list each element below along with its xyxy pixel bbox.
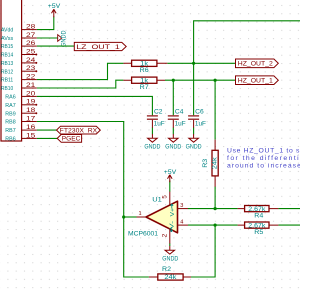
wire top right corner <box>194 21 300 64</box>
capacitor C6 <box>188 110 206 128</box>
wire R7 to HZ_OUT_1 <box>165 79 236 81</box>
svg-text:RB8: RB8 <box>5 120 15 126</box>
op-amp U1 <box>128 192 188 244</box>
wire +5V to pin 28 <box>37 16 54 29</box>
svg-text:2.67k: 2.67k <box>248 207 266 213</box>
wire RB11 to R6 <box>37 63 124 79</box>
pin 21 RB10 <box>1 83 37 92</box>
resistor R5 <box>238 222 279 236</box>
opamp pin 3 <box>178 208 189 210</box>
svg-text:1k: 1k <box>140 78 149 84</box>
svg-text:4: 4 <box>180 220 183 226</box>
pin 17 RB8 <box>5 116 37 125</box>
svg-text:2: 2 <box>162 233 169 237</box>
wire R6 to HZ_OUT_2 <box>167 62 235 64</box>
wire opamp pin2 to gnd <box>169 243 171 246</box>
pin 16 RB7 <box>5 125 37 134</box>
svg-text:3: 3 <box>180 203 183 209</box>
svg-text:GNDD: GNDD <box>162 257 179 263</box>
wire R4 to right edge <box>278 208 300 210</box>
svg-text:FT230X_RX: FT230X_RX <box>60 127 97 134</box>
svg-text:AVss: AVss <box>1 36 13 42</box>
pin 26 RB15 <box>1 41 37 50</box>
svg-text:RB6: RB6 <box>5 137 15 143</box>
svg-text:RB12: RB12 <box>1 69 13 75</box>
junction R5 pin4 <box>214 224 217 227</box>
svg-text:1k: 1k <box>140 62 149 68</box>
ground GNDD C6 <box>186 134 203 151</box>
junction opamp out <box>122 215 125 218</box>
svg-text:27: 27 <box>26 33 36 39</box>
pin 22 RB11 <box>1 75 37 84</box>
note text <box>227 147 307 169</box>
opamp V- marker <box>170 227 173 232</box>
svg-text:R7: R7 <box>140 85 150 91</box>
svg-text:1uF: 1uF <box>154 121 165 127</box>
svg-text:RA7: RA7 <box>5 103 15 109</box>
svg-text:GNDD: GNDD <box>165 145 182 151</box>
label LZ_OUT_1 <box>74 42 126 51</box>
wire C4 bottom <box>172 128 174 135</box>
wire pin16 to FT230X_RX <box>37 129 57 131</box>
svg-text:16: 16 <box>26 125 36 131</box>
label HZ_OUT_2 <box>236 59 279 68</box>
opamp pin 1 <box>137 216 147 218</box>
svg-text:23: 23 <box>26 66 36 72</box>
wire C6 tap <box>193 63 195 115</box>
capacitor C4 <box>168 110 186 128</box>
power +5V opamp <box>164 169 177 182</box>
pin 25 RB14 <box>1 49 37 58</box>
pin 15 RB6 <box>5 133 37 142</box>
svg-text:2.67k: 2.67k <box>248 223 266 229</box>
svg-text:MCP6001: MCP6001 <box>128 231 159 238</box>
pin 27 AVss <box>1 33 37 42</box>
svg-text:RB13: RB13 <box>1 61 13 67</box>
pin 18 RB9 <box>5 108 37 117</box>
svg-text:RB15: RB15 <box>1 44 13 50</box>
junction C6 wire1 <box>192 62 195 65</box>
wire pin 26 to label <box>37 45 74 47</box>
svg-text:15: 15 <box>26 133 36 139</box>
svg-text:24k: 24k <box>213 156 219 169</box>
junction C4 wire2 <box>172 79 175 82</box>
svg-text:RA6: RA6 <box>5 95 15 101</box>
ground GNDD opamp <box>162 246 179 263</box>
svg-text:R5: R5 <box>254 230 264 236</box>
junction R3 pin3 <box>214 207 217 210</box>
opamp pin 2 <box>169 229 171 243</box>
wire pin4 to R5 <box>188 224 238 226</box>
svg-text:RB14: RB14 <box>1 53 13 59</box>
svg-text:+5V: +5V <box>164 169 177 176</box>
IC U2 body <box>1 0 22 141</box>
wire C6 bottom <box>193 128 195 135</box>
svg-text:R3: R3 <box>203 158 209 168</box>
svg-text:24k: 24k <box>164 275 177 281</box>
resistor R4 <box>238 206 279 220</box>
svg-text:HZ_OUT_1: HZ_OUT_1 <box>238 78 273 85</box>
svg-text:GNDD: GNDD <box>61 30 68 47</box>
pin 28 AVdd <box>1 25 37 34</box>
ground GNDD C2 <box>144 134 161 151</box>
svg-text:for the differential: for the differential <box>227 155 300 162</box>
wire R3 top <box>214 80 216 139</box>
svg-text:17: 17 <box>26 116 36 122</box>
wire C4 tap <box>172 80 174 115</box>
wire pin 27 to GNDD arrow <box>37 37 58 39</box>
svg-text:R2: R2 <box>162 267 172 273</box>
svg-text:5: 5 <box>162 195 169 199</box>
wire +5V to opamp pin5 <box>169 181 171 192</box>
opamp pin 4 <box>178 224 189 226</box>
label PGEC <box>57 135 81 143</box>
svg-text:HZ_OUT_2: HZ_OUT_2 <box>238 61 273 68</box>
svg-text:1uF: 1uF <box>195 121 206 127</box>
label FT230X_RX <box>57 126 101 134</box>
pin 20 RA6 <box>5 91 37 100</box>
wire C2 bottom <box>151 128 153 135</box>
wire RB8 down to R2 left <box>37 122 149 278</box>
wire opamp out <box>124 216 137 218</box>
svg-text:20: 20 <box>26 91 36 97</box>
svg-text:26: 26 <box>26 41 36 47</box>
svg-text:around to increase: around to increase <box>227 162 300 169</box>
wire RB10 to R7 <box>37 80 124 88</box>
pin 23 RB12 <box>1 66 37 75</box>
svg-text:V+: V+ <box>170 207 176 216</box>
svg-text:RB11: RB11 <box>1 78 13 84</box>
label HZ_OUT_1 <box>236 76 279 85</box>
ground GNDD C4 <box>165 134 182 151</box>
wire pin3 to R4 <box>188 208 238 210</box>
svg-text:28: 28 <box>26 25 36 31</box>
resistor R6 <box>123 60 167 74</box>
svg-text:C2: C2 <box>154 110 163 116</box>
resistor R2 <box>149 267 191 281</box>
svg-text:1uF: 1uF <box>175 121 186 127</box>
svg-text:GNDD: GNDD <box>186 145 203 151</box>
opamp V+ marker <box>171 204 174 209</box>
resistor R7 <box>123 77 165 91</box>
svg-text:22: 22 <box>26 75 36 81</box>
svg-text:AVdd: AVdd <box>1 28 13 34</box>
junction R3 wire2 <box>214 79 217 82</box>
svg-text:RB9: RB9 <box>5 111 15 117</box>
svg-text:RB10: RB10 <box>1 86 13 92</box>
svg-text:19: 19 <box>26 100 36 106</box>
wire RA6 to C2 <box>37 96 153 115</box>
svg-text:21: 21 <box>26 83 36 89</box>
svg-text:PGEC: PGEC <box>62 136 81 143</box>
svg-text:R4: R4 <box>254 214 264 220</box>
resistor R3 <box>203 140 219 187</box>
svg-text:C6: C6 <box>195 110 204 116</box>
wire R3 bottom <box>214 187 216 209</box>
power GNDD arrow pin27 <box>58 30 68 47</box>
svg-text:GNDD: GNDD <box>144 145 161 151</box>
wire R5 to right edge <box>278 224 300 226</box>
svg-text:C4: C4 <box>175 110 184 116</box>
pin 19 RA7 <box>5 100 37 109</box>
pin 24 RB13 <box>1 58 37 67</box>
svg-text:LZ_OUT_1: LZ_OUT_1 <box>76 44 120 51</box>
svg-text:18: 18 <box>26 108 36 114</box>
power +5V U2 <box>48 3 61 17</box>
capacitor C2 <box>147 110 165 128</box>
svg-text:25: 25 <box>26 49 36 55</box>
wire R5 junction down to R2 <box>191 225 215 277</box>
opamp pin 5 <box>169 192 171 206</box>
svg-text:V-: V- <box>169 221 175 230</box>
svg-text:+5V: +5V <box>48 3 61 10</box>
svg-text:Use HZ_OUT_1 to se: Use HZ_OUT_1 to se <box>227 147 300 154</box>
svg-text:1: 1 <box>138 211 141 217</box>
svg-text:RB7: RB7 <box>5 128 15 134</box>
svg-text:24: 24 <box>26 58 36 64</box>
wire pin15 to PGEC <box>37 137 57 139</box>
svg-text:R6: R6 <box>140 68 150 74</box>
